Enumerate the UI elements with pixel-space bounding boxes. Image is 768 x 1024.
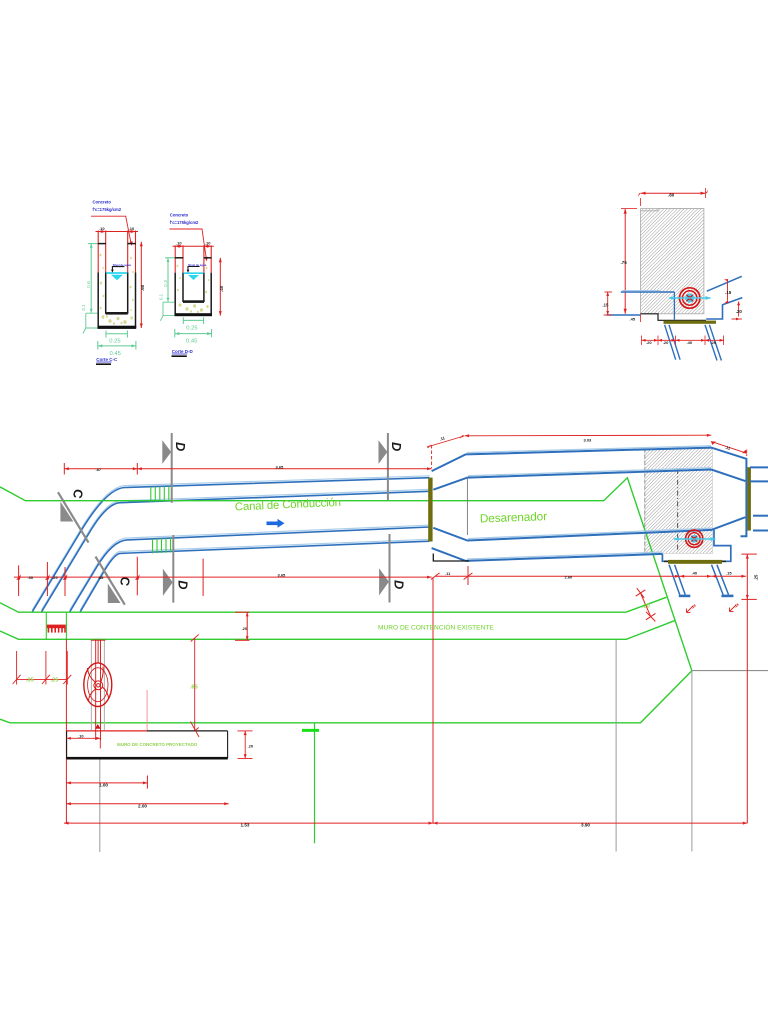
dim .30 .25 .88 3.65 lower: [14, 557, 432, 596]
desarenador outline top: [432, 448, 747, 537]
valve assembly left: [91, 640, 104, 731]
hatched wall: [641, 209, 704, 314]
dim 0.45 green C-C: [98, 341, 136, 350]
svg-text:Corte D-D: Corte D-D: [172, 349, 194, 354]
svg-text:Nivel de agua: Nivel de agua: [188, 263, 206, 267]
green verticals at comb: [45, 612, 47, 639]
dim .87 / 3.65 top: [64, 463, 431, 475]
dim .25 vertical right: [741, 554, 756, 599]
svg-text:.20: .20: [663, 340, 669, 345]
svg-text:1.53: 1.53: [241, 823, 250, 828]
dim 0.3 green left D-D: [165, 258, 174, 302]
small slope marks bottom: [687, 605, 737, 613]
canal light blue companions: [32, 476, 429, 610]
svg-text:0.1: 0.1: [81, 304, 86, 311]
dim .10 .10 wall tops D-D: [173, 245, 214, 247]
dim .20 small at line A-B: [235, 612, 250, 640]
water line D-D: [184, 272, 204, 274]
water line left blue: [621, 291, 675, 293]
svg-text:.40: .40: [692, 571, 698, 576]
SECTION-CC: [81, 200, 145, 365]
svg-text:Nivel de agua: Nivel de agua: [113, 263, 131, 267]
svg-text:f'c=175kg/cm2: f'c=175kg/cm2: [93, 207, 122, 212]
red X ticks with .20 on steep diagonal: [636, 588, 656, 621]
section marker C upper: [58, 488, 89, 543]
green existing wall top line: [0, 478, 692, 671]
section marker D lower-2: [379, 534, 407, 603]
dim .40 right D-D: [219, 258, 221, 316]
dim .20 right of muro: [238, 731, 253, 759]
dim 0.45 green D-D: [175, 329, 212, 337]
svg-text:D: D: [176, 580, 191, 589]
svg-text:3.90: 3.90: [581, 823, 590, 828]
svg-text:.10: .10: [78, 733, 84, 738]
vertical blue drop: [673, 292, 675, 320]
svg-text:.80: .80: [668, 192, 675, 197]
svg-text:.65: .65: [190, 685, 199, 691]
svg-text:f'c=175kg/cm2: f'c=175kg/cm2: [170, 220, 199, 225]
leader C-C: [91, 216, 131, 243]
svg-text:.30: .30: [28, 575, 34, 580]
wall red upper edges C-C: [98, 231, 135, 273]
desarenador hatched wall: [645, 449, 713, 554]
section marker D upper-1: [162, 433, 188, 503]
dim .10 inside muro: [67, 738, 101, 748]
svg-text:.20: .20: [646, 340, 652, 345]
svg-text:.15: .15: [726, 571, 732, 576]
leader D-D: [169, 229, 206, 259]
grey verticals: [100, 640, 692, 853]
svg-text:D: D: [173, 442, 188, 451]
svg-text:.20: .20: [736, 309, 743, 314]
flow arrow blue: [267, 519, 285, 528]
muro proyectado rectangle: [67, 731, 228, 757]
nivel bracket D-D: [188, 267, 200, 271]
svg-text:D: D: [389, 442, 404, 451]
outlet channel lines: [750, 467, 768, 530]
svg-text:0.45: 0.45: [186, 339, 197, 345]
dim .75 left: [624, 209, 626, 314]
U channel walls black C-C: [98, 244, 136, 328]
inner slab C-C: [106, 312, 128, 315]
svg-text:.87: .87: [96, 467, 102, 472]
nivel bracket C-C: [112, 267, 124, 271]
svg-text:2.60: 2.60: [565, 575, 574, 580]
valve detail: [669, 288, 711, 308]
dim .20 right small: [732, 302, 743, 320]
olive gate outlet: [747, 467, 751, 530]
dashed centerline through outlet valve: [677, 469, 679, 552]
green wall line B: [0, 620, 676, 639]
grey horizontal from junction: [692, 670, 768, 672]
U channel walls black D-D: [175, 258, 212, 316]
dim .65 vertical: [191, 635, 199, 735]
desarenador outline bottom: [433, 517, 745, 540]
right side blue steps: [707, 276, 742, 291]
transition grilles green: [151, 486, 171, 553]
PLAN: [0, 433, 768, 852]
svg-text:.20: .20: [642, 604, 650, 610]
svg-text:1.00: 1.00: [99, 782, 108, 787]
svg-text:Corte C-C: Corte C-C: [96, 357, 118, 362]
bottom dims .20 .20 .40 .20: [642, 339, 724, 341]
svg-text:Concreto: Concreto: [93, 200, 112, 205]
plan legs blue: [669, 565, 728, 595]
dim .15 left: [604, 292, 613, 315]
green tick marker on line C: [314, 723, 316, 844]
svg-text:Concreto: Concreto: [170, 213, 189, 218]
svg-text:.88: .88: [98, 575, 104, 580]
concrete speckle texture D-D: [177, 265, 210, 313]
red diagonal tick at .65 bottom crossing: [191, 722, 200, 738]
DETAIL-TOPRIGHT: [603, 188, 743, 361]
black corner bracket under transition: [433, 554, 469, 562]
svg-text:.20: .20: [242, 626, 248, 631]
lower-left blue floor line: [607, 314, 641, 316]
long red verticals: [66, 577, 747, 823]
svg-text:.15: .15: [725, 290, 732, 295]
dim .10 .10 wall tops C-C: [96, 231, 139, 233]
svg-text:0.1: 0.1: [158, 293, 163, 300]
water line C-C: [106, 272, 127, 274]
plan valve: [674, 530, 715, 547]
svg-text:3.65: 3.65: [278, 572, 287, 577]
svg-text:MURO DE CONTENCIÓN EXISTENTE: MURO DE CONTENCIÓN EXISTENTE: [378, 623, 494, 632]
svg-text:.10: .10: [129, 226, 135, 231]
svg-text:.11: .11: [445, 571, 451, 576]
detail legs blue: [665, 325, 722, 361]
wall red upper edges D-D: [175, 245, 211, 272]
green wall line A: [0, 597, 666, 612]
section marker D upper-2: [379, 433, 405, 500]
svg-text:.10: .10: [99, 226, 105, 231]
light red vertical at 147: [146, 690, 148, 730]
dim 0.25 green D-D: [183, 317, 203, 324]
svg-text:.25: .25: [52, 575, 58, 580]
svg-text:.75: .75: [621, 260, 628, 265]
red comb grate: [47, 625, 66, 629]
svg-text:0.25: 0.25: [186, 325, 197, 331]
section marker C lower: [96, 557, 134, 605]
dims 1.00 2.00 1.53 3.90: [64, 776, 747, 824]
dim .60 right C-C: [140, 242, 142, 328]
bottom-right step + notch: [662, 530, 730, 561]
svg-text:.10: .10: [205, 241, 211, 246]
dim 0.25 green C-C: [106, 331, 127, 338]
svg-text:.20: .20: [248, 744, 254, 749]
base step outline: [641, 314, 707, 321]
dim 0.1 green left C-C: [83, 313, 98, 333]
concrete speckle texture C-C: [100, 254, 134, 325]
green wall line C: [0, 671, 692, 723]
svg-text:3.65: 3.65: [276, 465, 285, 470]
svg-text:.15: .15: [603, 303, 609, 308]
svg-text:Desarenador: Desarenador: [480, 509, 548, 525]
svg-text:MURO DE CONCRETO PROYECTADO: MURO DE CONCRETO PROYECTADO: [117, 742, 198, 747]
dim .35 .25 pale: [13, 651, 72, 685]
olive gate transition: [428, 478, 432, 542]
svg-text:.40: .40: [687, 340, 693, 345]
svg-text:3.03: 3.03: [584, 438, 593, 443]
outer slab D-D: [175, 313, 212, 316]
dim .80 top: [641, 192, 706, 194]
olive base strip: [664, 321, 717, 324]
dim .11 2.60 .40 .15 bottom: [431, 566, 746, 585]
light companions desarenador: [467, 446, 711, 559]
svg-text:.20: .20: [711, 340, 717, 345]
dim 0.1 green left D-D: [160, 302, 174, 321]
svg-text:0.3: 0.3: [163, 280, 169, 287]
SECTION-DD: [158, 213, 224, 357]
svg-text:0.25: 0.25: [109, 339, 120, 345]
svg-text:D: D: [392, 580, 407, 589]
section marker D lower-1: [163, 535, 191, 603]
svg-text:.10: .10: [176, 241, 182, 246]
svg-text:.25: .25: [754, 574, 759, 580]
transition end grey line: [466, 478, 468, 535]
dim .15 right: [727, 279, 729, 301]
svg-text:0.6: 0.6: [86, 281, 92, 288]
dim .11 3.03 .11 top of desarenador: [427, 435, 747, 468]
outer slab C-C: [98, 326, 137, 329]
svg-text:.25: .25: [50, 677, 59, 683]
canal wall lines blue: [32, 478, 429, 612]
svg-text:.35: .35: [26, 677, 35, 683]
inner slab D-D: [183, 300, 204, 303]
svg-text:.60: .60: [140, 284, 145, 291]
olive strip under notch: [668, 560, 722, 564]
svg-text:.40: .40: [219, 285, 224, 292]
svg-text:0.45: 0.45: [110, 351, 121, 357]
dim 0.6 green left C-C: [88, 244, 98, 313]
svg-text:.45: .45: [630, 317, 636, 322]
svg-text:2.00: 2.00: [138, 803, 147, 808]
